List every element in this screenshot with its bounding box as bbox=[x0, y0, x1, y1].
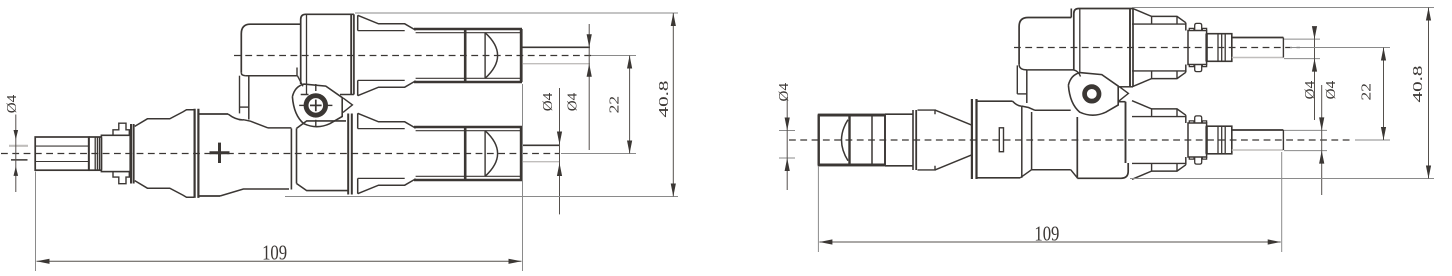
svg-text:109: 109 bbox=[1034, 222, 1059, 246]
svg-text:Ø4: Ø4 bbox=[1303, 81, 1318, 100]
svg-text:Ø4: Ø4 bbox=[5, 95, 20, 114]
svg-text:22: 22 bbox=[1359, 83, 1374, 101]
svg-text:Ø4: Ø4 bbox=[541, 93, 556, 112]
svg-text:40.8: 40.8 bbox=[1411, 66, 1426, 103]
svg-text:22: 22 bbox=[608, 96, 623, 114]
svg-text:Ø4: Ø4 bbox=[1324, 81, 1339, 100]
svg-text:109: 109 bbox=[262, 241, 287, 265]
svg-text:Ø4: Ø4 bbox=[566, 93, 581, 112]
svg-text:40.8: 40.8 bbox=[657, 81, 672, 118]
svg-text:Ø4: Ø4 bbox=[777, 83, 792, 102]
